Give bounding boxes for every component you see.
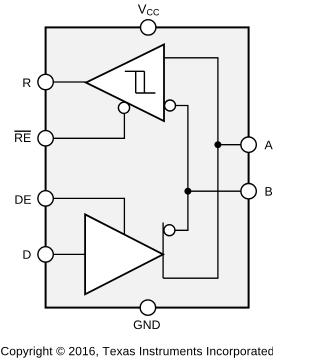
terminal B bbox=[241, 184, 256, 199]
label B bbox=[266, 187, 273, 195]
label D bbox=[23, 250, 30, 258]
hysteresis symbol inside receiver bbox=[125, 71, 156, 93]
bubble RE enable on receiver bbox=[118, 102, 129, 113]
copyright notice bbox=[1, 347, 273, 358]
wire DE enable: pin DE right then down to driver top edge bbox=[46, 198, 125, 235]
label VCC bbox=[138, 5, 159, 16]
terminal VCC bbox=[141, 20, 156, 35]
wire RE enable: pin RE right then up to bubble bbox=[46, 112, 125, 138]
label DE bbox=[15, 195, 31, 203]
device outline box bbox=[46, 27, 249, 307]
terminal DE bbox=[38, 191, 53, 206]
bubble receiver inverting input (B) bbox=[165, 100, 176, 111]
terminal GND bbox=[140, 300, 155, 315]
label RE (with overline) bbox=[14, 131, 31, 142]
wire A net: receiver + input, down right side, to driver output stub bbox=[163, 58, 218, 278]
label GND bbox=[134, 320, 160, 329]
label R bbox=[23, 79, 30, 87]
driver output stub bbox=[162, 223, 164, 279]
terminal D bbox=[38, 247, 53, 262]
wire R output: receiver apex to pin R bbox=[46, 81, 86, 83]
node B junction dot bbox=[184, 188, 191, 195]
wire D input: pin D to driver left edge bbox=[46, 253, 86, 255]
receiver U1 triangle bbox=[86, 45, 164, 122]
wire B net: receiver - input bubble, down, to driver inverting bubble bbox=[175, 106, 188, 231]
terminal R bbox=[38, 74, 53, 89]
terminal RE bbox=[38, 131, 53, 146]
wire B branch: node B to terminal B bbox=[188, 190, 249, 192]
label A bbox=[265, 141, 273, 149]
driver U2 triangle bbox=[85, 214, 163, 294]
wire A branch: node A to terminal A bbox=[218, 144, 249, 146]
node A junction dot bbox=[214, 141, 221, 148]
terminal A bbox=[241, 137, 256, 152]
bubble driver inverting output (B) bbox=[164, 225, 175, 236]
